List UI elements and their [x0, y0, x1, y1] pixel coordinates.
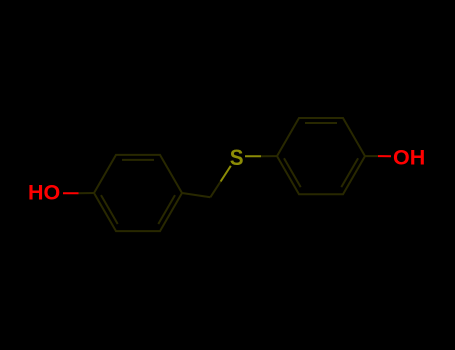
wire: bond left ring to CH2	[182, 193, 210, 197]
wire: bond CH2 to S carbon half	[210, 182, 220, 198]
wire: bond HO to left ring oxygen half	[63, 192, 79, 194]
double bond inner line right-bottom edge	[158, 195, 175, 224]
double bond inner line top edge	[305, 122, 337, 124]
double bond inner line left-bottom edge	[101, 195, 118, 224]
svg-text:OH: OH	[393, 146, 425, 170]
double bond inner line right-bottom edge	[341, 158, 358, 187]
double bond inner line top edge	[122, 159, 154, 161]
wire: bond S to right ring carbon half	[261, 155, 277, 157]
svg-text:S: S	[230, 145, 244, 170]
svg-text:HO: HO	[28, 181, 60, 205]
left benzene ring	[94, 155, 182, 231]
wire: bond right ring to OH oxygen half	[378, 155, 391, 157]
wire: bond HO to left ring carbon half	[79, 192, 95, 194]
wire: bond right ring to OH carbon half	[365, 155, 378, 157]
wire: bond CH2 to S sulfur half	[221, 166, 231, 182]
right benzene ring	[277, 118, 365, 194]
double bond inner line left-bottom edge	[284, 158, 301, 187]
wire: bond S to right ring sulfur half	[245, 155, 261, 157]
